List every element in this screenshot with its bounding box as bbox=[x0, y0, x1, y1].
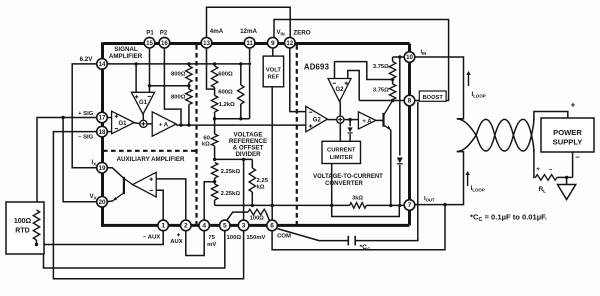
pin 13 bbox=[201, 37, 212, 48]
resistor 800ohm lower bbox=[186, 89, 192, 105]
IC boundary left bus bbox=[101, 42, 104, 226]
dashed boundary between signal amplifier and divider section bbox=[195, 45, 197, 225]
wire P2 from pin 16 down to signal amp output bbox=[164, 48, 181, 125]
wire COM pin 6 riser down to return rail bbox=[272, 205, 445, 250]
svg-text:AMPLIFIER: AMPLIFIER bbox=[109, 53, 143, 60]
pin 11 bbox=[244, 37, 255, 48]
node 600ohm2 top on 6.2V rail bbox=[239, 62, 242, 65]
node 800ohm midpoint bbox=[187, 84, 190, 87]
svg-text:kΩ: kΩ bbox=[257, 185, 265, 191]
svg-text:800Ω: 800Ω bbox=[171, 95, 186, 101]
wire RTD bottom to pin 1 -AUX bbox=[37, 231, 164, 245]
svg-text:150mV: 150mV bbox=[246, 235, 265, 241]
wire +SIG from pin 17 left then down to RTD top bbox=[37, 118, 96, 211]
svg-text:+ SIG: + SIG bbox=[78, 111, 94, 117]
resistor 60kohm bbox=[214, 119, 216, 134]
wire pin 18 stub to G1 bbox=[107, 131, 112, 133]
IC boundary right bus bbox=[408, 44, 411, 226]
svg-text:5: 5 bbox=[223, 223, 227, 230]
wire feedback tap to 800ohm midpoint bbox=[150, 85, 189, 87]
wire G2 upper plus to BOOST line bbox=[348, 71, 359, 101]
svg-text:600Ω: 600Ω bbox=[218, 72, 233, 78]
resistor 3.75ohm upper bbox=[392, 57, 394, 62]
svg-text:G2: G2 bbox=[335, 87, 344, 93]
svg-text:18: 18 bbox=[99, 129, 106, 136]
node COM return on IOUT wire bbox=[443, 203, 446, 206]
wire -SIG from pin 18 left, down, along bottom to pin 3 bbox=[53, 132, 243, 279]
wire pin 17 stub to G1 bbox=[107, 117, 112, 119]
svg-text:AD693: AD693 bbox=[304, 63, 330, 72]
node divider bottom row left bbox=[213, 117, 216, 120]
wire output rail right of 3k to pin 7 bbox=[366, 204, 404, 206]
pin 12 bbox=[285, 37, 296, 48]
wire P1 from pin 15 down to G1 feedback node bbox=[149, 48, 151, 92]
wire emitter down to output rail bbox=[390, 130, 392, 206]
pin 9 bbox=[268, 37, 279, 48]
svg-text:RTD: RTD bbox=[15, 228, 29, 235]
wire aux minus input to pin 1 bbox=[156, 190, 163, 220]
wire twisted pair to power supply plus bbox=[534, 112, 568, 121]
svg-text:6.2V: 6.2V bbox=[80, 56, 94, 63]
svg-text:+: + bbox=[571, 101, 576, 110]
svg-text:IIN: IIN bbox=[421, 50, 427, 57]
resistor 3kohm bbox=[350, 203, 367, 209]
svg-text:P1: P1 bbox=[146, 30, 154, 36]
svg-text:4: 4 bbox=[202, 223, 206, 230]
wire ZERO pin 12 down to G2 minus input bbox=[290, 48, 306, 112]
pin 19 bbox=[97, 162, 108, 173]
resistor 2.25kohm right leg bbox=[251, 159, 253, 168]
svg-text:CONVERTER: CONVERTER bbox=[325, 181, 363, 187]
svg-text:2.25: 2.25 bbox=[257, 178, 269, 184]
svg-text:2.25kΩ: 2.25kΩ bbox=[221, 191, 241, 197]
wire twisted pair to RL bbox=[534, 150, 536, 178]
wire signal amplifier output to G2 bbox=[176, 124, 306, 126]
capacitor CC compensation bbox=[347, 236, 349, 246]
svg-text:13: 13 bbox=[203, 40, 210, 47]
wire pin 19 to Q2 collector bbox=[107, 168, 124, 179]
pin 4 bbox=[199, 220, 210, 231]
svg-text:2: 2 bbox=[184, 223, 188, 230]
pin 5 bbox=[220, 220, 231, 231]
summing node signal amplifier bbox=[134, 122, 140, 125]
transistor Q1 output NPN bbox=[382, 113, 384, 127]
wire pin 7 IOUT to loop return bbox=[415, 152, 464, 205]
pin 17 bbox=[97, 112, 108, 123]
op-amp G1 upper feedback stage bbox=[131, 92, 154, 114]
twisted pair wire B bbox=[457, 119, 534, 151]
resistor 2.25kohm upper left bbox=[211, 163, 217, 179]
svg-text:AUX: AUX bbox=[170, 239, 183, 245]
node 3.75ohm midpoint bbox=[391, 78, 394, 81]
wire loop from pin 13 over top to pin 12 bbox=[207, 7, 291, 38]
power supply box bbox=[541, 118, 594, 152]
pin 18 bbox=[97, 126, 108, 137]
svg-text:ZERO: ZERO bbox=[293, 29, 310, 36]
resistor 100ohm between pin 5 and pin 6 bbox=[227, 212, 249, 221]
node diode tap at summing output bbox=[348, 118, 351, 121]
svg-text:100Ω: 100Ω bbox=[227, 235, 242, 241]
pin 1 bbox=[158, 220, 169, 231]
svg-text:– SIG: – SIG bbox=[78, 134, 93, 140]
svg-text:100Ω: 100Ω bbox=[250, 216, 264, 222]
resistor RL load bbox=[536, 175, 558, 181]
svg-text:16: 16 bbox=[161, 40, 168, 47]
resistor 1.2kohm bbox=[214, 89, 216, 95]
wire pin 10 IIN to loop supply bbox=[415, 57, 464, 119]
svg-text:2.25kΩ: 2.25kΩ bbox=[221, 169, 241, 175]
svg-text:8: 8 bbox=[408, 98, 412, 105]
node junction Vx to +SIG bbox=[61, 116, 64, 119]
diode to current limiter bbox=[349, 120, 351, 127]
svg-text:+: + bbox=[536, 166, 540, 173]
wire Vx riser from +SIG node down to pin 20 bbox=[63, 118, 96, 202]
pin 7 bbox=[404, 200, 415, 211]
ground symbol bbox=[566, 177, 568, 184]
twisted pair wire A bbox=[457, 119, 534, 151]
node VOLT REF / pin6 on COM rail bbox=[271, 204, 274, 207]
svg-text:VIN: VIN bbox=[277, 30, 285, 37]
svg-text:11: 11 bbox=[246, 40, 253, 47]
IC boundary top bus bbox=[104, 42, 410, 45]
current limiter box bbox=[322, 141, 361, 163]
svg-text:CURRENT: CURRENT bbox=[327, 148, 356, 154]
wire summing node down to current limiter bbox=[339, 123, 341, 141]
node 800ohm chain on output bbox=[187, 123, 190, 126]
svg-text:IOUT: IOUT bbox=[424, 196, 435, 203]
svg-text:75: 75 bbox=[208, 235, 215, 241]
pin 20 bbox=[97, 197, 108, 208]
amplifier +A signal stage bbox=[147, 123, 153, 125]
svg-text:12: 12 bbox=[286, 40, 293, 47]
pin 3 bbox=[238, 220, 249, 231]
pin 15 bbox=[144, 37, 155, 48]
resistor 600ohm second bbox=[240, 64, 242, 85]
BOOST label box bbox=[419, 91, 446, 101]
amplifier +A output stage bbox=[358, 112, 375, 129]
node 75mV tap bbox=[213, 180, 216, 183]
svg-text:VOLTAGE-TO-CURRENT: VOLTAGE-TO-CURRENT bbox=[313, 174, 383, 180]
pin 16 bbox=[159, 37, 170, 48]
node 800ohm top on 6.2V rail bbox=[187, 62, 190, 65]
wire pin 11 riser bbox=[249, 48, 251, 119]
pin 6 bbox=[267, 220, 278, 231]
node P1 feedback tap bbox=[148, 84, 151, 87]
resistor 600ohm first bbox=[214, 64, 216, 66]
wire power supply minus down bbox=[572, 152, 574, 177]
svg-text:3: 3 bbox=[242, 223, 246, 230]
node ground tap bbox=[565, 176, 568, 179]
node emitter on output rail bbox=[389, 204, 392, 207]
node current limiter leg on COM rail bbox=[330, 204, 333, 207]
node 2.25k right leg on COM rail bbox=[251, 204, 254, 207]
svg-text:kΩ: kΩ bbox=[202, 141, 210, 147]
wire COM diagonal to compensation cap bbox=[277, 229, 348, 241]
node pin 3 riser on tap row bbox=[242, 158, 245, 161]
IC boundary bottom bus bbox=[101, 224, 409, 227]
dashed boundary above auxiliary amplifier bbox=[103, 150, 197, 152]
svg-text:3.75Ω: 3.75Ω bbox=[373, 64, 389, 70]
wire 6.2V rail right from pin 14 bbox=[107, 63, 252, 65]
svg-text:600Ω: 600Ω bbox=[218, 90, 233, 96]
wire G1 plus input riser from 6.2V rail bbox=[135, 64, 137, 92]
svg-text:mV: mV bbox=[207, 242, 216, 248]
svg-text:1: 1 bbox=[161, 223, 165, 230]
node diode bottom on output rail bbox=[398, 204, 401, 207]
wire COM rail bbox=[215, 204, 350, 206]
svg-text:3kΩ: 3kΩ bbox=[352, 196, 363, 202]
svg-text:4mA: 4mA bbox=[210, 28, 224, 35]
wire 6.2V from pin 14 left and down to pin 19 bbox=[72, 64, 96, 168]
svg-text:LIMITER: LIMITER bbox=[330, 155, 354, 161]
wire aux plus input to pin 2 bbox=[156, 179, 186, 221]
op-amp G2 upper boost stage bbox=[328, 79, 351, 102]
summing node V-I converter bbox=[327, 119, 337, 121]
node 60kohm bottom 150mV tap bbox=[213, 158, 216, 161]
wire VOLT REF lead down to COM rail and pin 6 riser bbox=[271, 87, 273, 221]
wire pin 3 riser bbox=[243, 159, 245, 220]
svg-text:POWER: POWER bbox=[553, 128, 582, 137]
op-amp G1 input stage bbox=[112, 111, 135, 134]
resistor RTD element bbox=[36, 209, 39, 211]
arrow ILOOP lower bbox=[467, 173, 469, 186]
op-amp auxiliary amplifier bbox=[133, 172, 157, 197]
svg-text:REF: REF bbox=[268, 75, 280, 81]
svg-text:14: 14 bbox=[99, 61, 106, 68]
svg-text:BOOST: BOOST bbox=[423, 95, 444, 101]
svg-text:G2: G2 bbox=[313, 118, 322, 124]
svg-text:3.75Ω: 3.75Ω bbox=[373, 88, 389, 94]
wire BOOST line left segment bbox=[359, 100, 404, 102]
svg-text:DIVIDER: DIVIDER bbox=[235, 151, 261, 158]
svg-text:+ A: + A bbox=[159, 123, 169, 129]
svg-text:G1: G1 bbox=[118, 121, 127, 127]
node RTD bottom branch bbox=[42, 243, 45, 246]
svg-text:100Ω: 100Ω bbox=[14, 218, 32, 225]
svg-text:19: 19 bbox=[99, 165, 106, 172]
svg-text:SUPPLY: SUPPLY bbox=[553, 138, 583, 147]
wire pin 13 riser to 600ohm tap bbox=[207, 48, 215, 89]
diode between IIN and IOUT bbox=[399, 57, 401, 156]
dashed boundary between divider and V-I converter section bbox=[296, 45, 298, 225]
svg-text:9: 9 bbox=[271, 40, 275, 47]
RTD box bbox=[6, 202, 44, 254]
svg-text:10: 10 bbox=[406, 54, 413, 61]
transistor Q2 auxiliary NPN bbox=[123, 177, 125, 194]
wire 150mV tap row bbox=[215, 158, 253, 160]
svg-text:–: – bbox=[575, 153, 580, 162]
resistor 800ohm upper bbox=[188, 64, 190, 66]
pin 10 bbox=[404, 52, 415, 63]
pin 2 bbox=[181, 220, 192, 231]
svg-text:800Ω: 800Ω bbox=[171, 72, 186, 78]
node 600ohm top on 6.2V rail bbox=[213, 62, 216, 65]
wire cap up to BOOST line bbox=[355, 102, 418, 241]
wire summing node to +A bbox=[344, 119, 359, 121]
svg-text:P2: P2 bbox=[160, 30, 168, 36]
wire pin 4 riser up to 75mV tap bbox=[204, 182, 214, 221]
resistor 2.25kohm lower left bbox=[211, 184, 217, 200]
wire G2 upper minus to 3.75ohm midpoint bbox=[335, 62, 393, 80]
svg-text:12mA: 12mA bbox=[240, 28, 257, 35]
svg-text:AUXILIARY AMPLIFIER: AUXILIARY AMPLIFIER bbox=[117, 156, 185, 163]
svg-text:–: – bbox=[549, 166, 553, 173]
wire current limiter sense loop under 3k bbox=[332, 164, 400, 217]
wire from pin 9 VIN up over to right then down to BOOST line bbox=[274, 20, 449, 101]
wire G2 upper output to summing node bbox=[339, 102, 341, 117]
pin 8 bbox=[404, 95, 415, 106]
wire U link pin 2 to pin 4 bbox=[186, 231, 204, 256]
svg-text:G1: G1 bbox=[139, 100, 148, 106]
svg-text:15: 15 bbox=[146, 40, 153, 47]
node G1 plus riser on 6.2V rail bbox=[134, 62, 137, 65]
node RTD bottom bbox=[35, 243, 38, 246]
svg-text:7: 7 bbox=[408, 202, 412, 209]
svg-text:20: 20 bbox=[99, 199, 106, 206]
wire pin 20 to Q2 emitter bbox=[107, 200, 113, 203]
svg-text:+ A: + A bbox=[362, 119, 372, 125]
op-amp G2 input V-I converter bbox=[306, 106, 328, 132]
node 600ohm2 bottom bbox=[239, 117, 242, 120]
resistor 3.75ohm lower bbox=[392, 80, 394, 85]
svg-text:VOLT: VOLT bbox=[266, 68, 282, 74]
node 3.75ohm bottom collector on BOOST line bbox=[391, 99, 394, 102]
wire +A output to transistor base bbox=[376, 119, 384, 121]
arrow ILOOP upper bbox=[468, 73, 470, 86]
pin 14 bbox=[97, 59, 108, 70]
wire pin 10 to 3.75ohm chain bbox=[393, 56, 405, 58]
svg-text:17: 17 bbox=[99, 115, 106, 122]
node P2 on output bbox=[179, 123, 182, 126]
svg-text:6: 6 bbox=[270, 223, 274, 230]
wire RTD bottom down to pin 5 row bbox=[44, 231, 225, 268]
svg-text:– AUX: – AUX bbox=[143, 234, 160, 240]
node diode line top on IIN wire bbox=[398, 55, 401, 58]
wire pin 9 lead into VOLT REF bbox=[272, 48, 274, 56]
svg-text:1.2kΩ: 1.2kΩ bbox=[219, 102, 235, 108]
volt ref box bbox=[263, 56, 283, 87]
svg-text:COM: COM bbox=[277, 233, 291, 239]
wire divider bottom row to pin 11 bbox=[215, 118, 250, 120]
